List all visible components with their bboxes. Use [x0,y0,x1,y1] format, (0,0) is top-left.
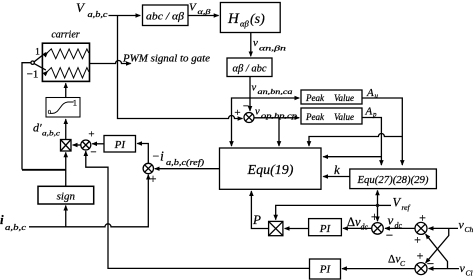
wire A_p branch left into Equ(19) right edge [323,156,381,158]
svg-text:dc: dc [395,221,403,230]
wire V_ref down into vdc error junction [377,205,379,221]
svg-text:(s): (s) [250,12,265,27]
node V_ref junction dot [376,204,379,207]
svg-text:Equ(19): Equ(19) [247,163,294,178]
wire current error up into PI [137,144,148,164]
summing junction vdc adder [415,222,427,234]
svg-text:αn,βn: αn,βn [259,44,286,53]
svg-text:1: 1 [35,48,40,58]
svg-text:v: v [255,107,260,118]
svg-text:−: − [427,256,434,271]
block Peak Value 1 [301,90,362,104]
block sign [38,186,94,204]
wire i_a,b,c input line [29,175,148,227]
svg-text:PWM signal to gate: PWM signal to gate [122,54,211,65]
block alphabeta/abc [227,58,272,77]
wire v_dc [385,227,415,229]
wire junction up into duty multiplier [65,152,67,169]
wire A_u [362,98,402,165]
svg-text:0: 0 [48,109,51,116]
svg-text:αβ / abc: αβ / abc [232,64,266,75]
svg-text:dc: dc [361,223,369,232]
svg-text:+: + [417,249,424,263]
wire PI out to inner summing junction [92,143,104,145]
wire v_Cl diagonal up to vdc adder [426,234,448,268]
svg-text:a,b,c: a,b,c [88,10,109,19]
wire v_an branch down into Equ(19) [232,98,251,146]
svg-text:op,bp,cp: op,bp,cp [261,112,298,120]
summing junction current error [143,163,153,173]
multiplier duty [61,140,72,152]
wire saturation out up into carrier [65,83,67,97]
wire PWM signal out of carrier [90,61,131,64]
block Equ(19) [220,148,322,189]
block PI current loop [104,136,136,153]
svg-text:Δv: Δv [347,215,361,229]
wire v_an to Peak Value 1 [250,97,299,99]
block H_ab(s) [220,3,280,33]
svg-text:−: − [243,101,249,113]
svg-text:V: V [76,0,86,15]
wire balancing feedback from bottom PI to inner summing junction [86,151,310,268]
wire V_ref vertical up into Equ(27)(28)(29) [377,190,379,205]
svg-text:Cl: Cl [466,269,473,278]
wire junction out to multiplier [73,144,81,146]
svg-text:d′: d′ [33,121,42,135]
carrier selector switch pole circle [31,61,34,64]
svg-text:Peak: Peak [305,93,325,103]
svg-text:u: u [375,92,379,100]
svg-text:Value: Value [334,112,354,122]
block saturation [46,98,80,118]
svg-text:C: C [400,259,406,268]
svg-text:+: + [88,129,94,141]
svg-text:H: H [227,11,240,27]
svg-text:PI: PI [114,139,127,151]
svg-text:PI: PI [319,264,332,276]
summing junction v_op [244,113,254,123]
svg-text:+: + [419,211,426,225]
wire PI out to P multiplier [285,228,309,230]
block abc/alphabeta [143,5,189,26]
wire k from Equ(27)(28)(29) to Equ(19) [323,176,350,178]
wire P up into Equ(19) bottom [251,191,268,228]
svg-text:a,b,c: a,b,c [42,130,61,138]
svg-text:p: p [372,111,377,119]
svg-text:+: + [149,172,156,186]
wire delta vdc into top PI [343,227,372,229]
wire v_op branch down into Equ(19) [278,118,280,146]
multiplier P [269,221,283,235]
wire feedforward branch from Vabc line down and right into v summing junction [118,16,243,119]
wire switch pole left and down to sign junction [22,63,66,187]
wire Valpha,beta [188,15,219,17]
svg-text:v: v [253,37,258,49]
wire v_Ch input [429,227,458,229]
wire v_op,bp,cp to Peak Value 2 [254,117,299,119]
carrier selector switch throws [34,53,46,71]
block Equ(27)(28)(29) [350,169,437,189]
block Peak Value 2 [301,108,362,124]
summing junction duty correction [81,140,91,150]
svg-text:P: P [252,212,261,227]
svg-text:Ch: Ch [465,225,474,234]
svg-text:αβ: αβ [240,19,249,29]
svg-text:v: v [388,213,394,228]
svg-text:k: k [334,162,340,177]
wire A_u branch left into Equ(19) top [309,134,402,147]
summing junction capacitor voltage difference [415,263,427,275]
svg-text:A: A [365,106,373,118]
svg-text:+: + [414,233,421,247]
svg-text:a,b,c(ref): a,b,c(ref) [166,158,204,167]
svg-text:1: 1 [73,98,77,108]
wire v_an,bn,ca down into v summing junction [249,77,251,111]
svg-text:PI: PI [319,223,332,235]
svg-text:i: i [0,212,4,227]
svg-text:A: A [366,87,374,99]
svg-text:i: i [160,150,164,165]
carrier lower triangle wave [46,68,89,78]
svg-text:abc / αβ: abc / αβ [146,12,185,23]
wire v_Ch diagonal down to difference junction [426,228,449,263]
svg-text:sign: sign [57,190,76,202]
wire i_ref from Equ(19) to current summing junction [155,168,220,170]
wire i branch up into sign [65,206,67,227]
wire A_p [362,118,381,166]
wire d'abc up into saturation block [65,119,67,139]
svg-text:v: v [252,83,257,94]
wire delta vC into bottom PI [342,268,415,270]
svg-text:−: − [153,149,160,163]
svg-text:a,b,c: a,b,c [5,223,27,232]
block PI bottom [310,259,341,279]
block carrier [42,43,89,81]
svg-text:Value: Value [334,93,354,103]
svg-text:+: + [234,107,240,119]
svg-text:V: V [189,2,197,14]
block PI dc loop [309,219,342,236]
svg-text:Peak: Peak [305,112,325,122]
svg-text:carrier: carrier [51,30,79,41]
svg-text:+: + [371,209,378,224]
wire V_ref stub [378,204,392,206]
svg-text:−: − [90,147,96,159]
svg-text:an,bn,ca: an,bn,ca [258,88,294,96]
summing junction vdc error [372,223,384,235]
wire Va,b,c to abc/ab block [109,15,141,17]
svg-text:−: − [386,228,393,243]
svg-text:ref: ref [402,203,411,212]
svg-text:V: V [393,196,402,210]
svg-text:−1: −1 [27,69,39,81]
wire V_ref left and down into P multiplier [276,205,378,219]
svg-text:Equ(27)(28)(29): Equ(27)(28)(29) [357,174,429,186]
carrier upper triangle wave [46,49,89,59]
wire v_Cl input [429,268,459,270]
svg-text:α,β: α,β [198,7,211,16]
wire v_an,bn (H out down) [250,33,252,57]
